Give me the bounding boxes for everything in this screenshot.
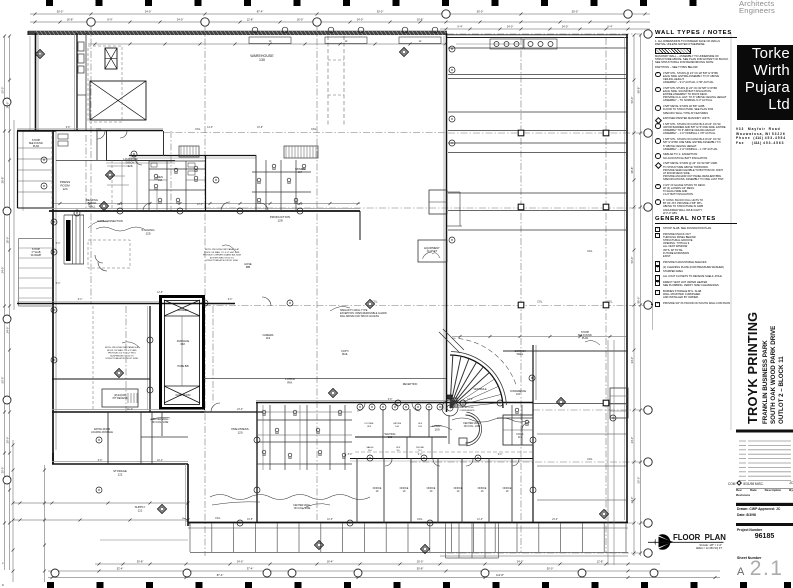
svg-text:PROVIDE CORNER GUARD EA. SIDE: PROVIDE CORNER GUARD EA. SIDE (203, 254, 242, 257)
svg-text:24'-0″: 24'-0″ (6, 327, 10, 334)
svg-text:COL.: COL. (372, 301, 378, 304)
svg-text:119: 119 (266, 336, 271, 340)
svg-text:118: 118 (158, 179, 163, 182)
svg-text:9'-8″: 9'-8″ (66, 127, 71, 129)
svg-text:16'-0″: 16'-0″ (6, 237, 10, 244)
svg-text:120: 120 (237, 431, 242, 435)
svg-text:50'-0″: 50'-0″ (547, 567, 554, 571)
svg-text:108: 108 (395, 426, 399, 428)
svg-text:50'-8″: 50'-8″ (417, 567, 424, 571)
svg-text:126: 126 (127, 164, 132, 168)
svg-text:24'-0″: 24'-0″ (1, 267, 5, 274)
svg-text:24'-0″: 24'-0″ (357, 18, 364, 22)
svg-text:16'-8″: 16'-8″ (247, 519, 253, 521)
svg-text:24'-0″: 24'-0″ (177, 18, 184, 22)
svg-text:24'-0″: 24'-0″ (507, 25, 514, 29)
svg-text:COL.: COL. (537, 301, 543, 304)
svg-text:102: 102 (518, 435, 523, 439)
svg-text:30'-8″: 30'-8″ (137, 560, 144, 564)
svg-text:130: 130 (259, 58, 265, 62)
svg-text:5'-4″: 5'-4″ (56, 243, 61, 245)
svg-text:AT EXPOSED STUD TO: AT EXPOSED STUD TO (210, 256, 234, 259)
svg-text:24'-0″: 24'-0″ (237, 409, 243, 411)
svg-text:16'-0″: 16'-0″ (297, 18, 304, 22)
svg-text:6'-8″: 6'-8″ (388, 399, 393, 401)
svg-text:RM.: RM. (287, 380, 292, 384)
svg-text:52'-4″: 52'-4″ (117, 567, 124, 571)
svg-text:101: 101 (388, 435, 393, 439)
svg-text:8'-0″: 8'-0″ (348, 454, 353, 456)
svg-text:PROVIDE 2x4 TO 8'-0″ HGT.: PROVIDE 2x4 TO 8'-0″ HGT. (108, 353, 136, 355)
svg-text:OFF: OFF (396, 447, 401, 449)
svg-text:125: 125 (145, 232, 150, 236)
svg-text:12'-8″: 12'-8″ (247, 18, 254, 22)
svg-text:DARK ROOM: DARK ROOM (176, 394, 191, 397)
svg-text:20'-0″: 20'-0″ (6, 437, 10, 444)
svg-text:c: c (2, 583, 4, 587)
svg-text:24'-0″: 24'-0″ (552, 519, 558, 521)
svg-text:COL.: COL. (96, 128, 102, 131)
svg-text:FUTURE: FUTURE (365, 423, 374, 425)
svg-text:117: 117 (298, 171, 303, 174)
svg-text:RAIL ABOVE FOR TRUCK ACCESS: RAIL ABOVE FOR TRUCK ACCESS (340, 315, 379, 318)
svg-text:PHONE: PHONE (416, 447, 424, 449)
svg-text:12: 12 (345, 40, 348, 43)
svg-text:RM.: RM. (181, 342, 186, 346)
svg-text:16'-4″: 16'-4″ (327, 560, 334, 564)
svg-text:112: 112 (418, 450, 422, 452)
svg-text:98'-8″: 98'-8″ (637, 87, 641, 94)
svg-text:MAIL: MAIL (342, 353, 348, 356)
svg-text:9'-0″: 9'-0″ (228, 299, 233, 301)
svg-text:10: 10 (376, 490, 379, 493)
svg-text:OFF: OFF (367, 426, 372, 428)
svg-text:12'-0″: 12'-0″ (477, 519, 483, 521)
svg-text:NOTE: PROVIDE FRP PANELS AT: NOTE: PROVIDE FRP PANELS AT (105, 346, 140, 349)
svg-text:ROOF OF WALL TO 4'-0″ HGT. AFF: ROOF OF WALL TO 4'-0″ HGT. AFF. (204, 251, 240, 254)
svg-text:24'-0″: 24'-0″ (630, 497, 634, 504)
svg-text:12: 12 (419, 40, 422, 43)
svg-text:50'-0″: 50'-0″ (1, 87, 5, 94)
svg-text:16'-8″: 16'-8″ (67, 18, 74, 22)
svg-text:LOADING PASSAGE: LOADING PASSAGE (91, 431, 113, 434)
svg-text:CONFERENCE: CONFERENCE (459, 410, 475, 412)
svg-text:50'-0″: 50'-0″ (477, 10, 484, 14)
svg-text:COL.: COL. (417, 518, 423, 521)
svg-text:50'-0″: 50'-0″ (630, 97, 634, 104)
svg-text:CAT RM: CAT RM (393, 422, 401, 425)
svg-text:128: 128 (277, 219, 282, 223)
svg-text:50'-0″: 50'-0″ (630, 257, 634, 264)
svg-text:HOPE BIB: HOPE BIB (177, 365, 189, 368)
svg-text:86'-0″: 86'-0″ (637, 297, 641, 304)
svg-text:87'-4″: 87'-4″ (217, 573, 224, 577)
svg-text:WALL: WALL (89, 204, 97, 208)
svg-text:30'-0″: 30'-0″ (377, 10, 384, 14)
svg-text:24'-0″: 24'-0″ (562, 25, 569, 29)
svg-text:12'-8″: 12'-8″ (597, 560, 604, 564)
svg-text:50'-0″: 50'-0″ (637, 477, 641, 484)
svg-text:103: 103 (516, 394, 521, 396)
svg-text:87'-4″: 87'-4″ (257, 10, 264, 14)
svg-text:10'-8″: 10'-8″ (417, 18, 424, 22)
svg-text:5'-4″: 5'-4″ (56, 283, 61, 285)
svg-text:COL.: COL. (587, 458, 593, 461)
svg-text:COL.: COL. (587, 250, 593, 253)
svg-text:12'-0″: 12'-0″ (467, 399, 473, 401)
svg-text:12'-4″: 12'-4″ (197, 204, 203, 206)
svg-text:36'-8″: 36'-8″ (630, 167, 634, 174)
svg-text:RECEPTION/: RECEPTION/ (460, 407, 474, 409)
svg-text:124: 124 (62, 187, 67, 191)
svg-text:50'-0″: 50'-0″ (1, 377, 5, 384)
svg-text:24'-0″: 24'-0″ (630, 437, 634, 444)
svg-text:10: 10 (457, 490, 460, 493)
svg-text:A: A (39, 53, 41, 57)
svg-text:9'-4″: 9'-4″ (607, 25, 612, 29)
svg-text:OFF: OFF (418, 423, 423, 425)
svg-text:10: 10 (481, 490, 484, 493)
svg-text:COL.: COL. (215, 517, 221, 520)
svg-text:COL.: COL. (311, 128, 317, 131)
svg-text:ON COL. LINE: ON COL. LINE (294, 507, 311, 510)
svg-text:c: c (2, 561, 4, 565)
svg-text:8'-0″: 8'-0″ (107, 18, 112, 22)
svg-text:109: 109 (418, 426, 422, 428)
svg-text:20'-0″: 20'-0″ (417, 560, 424, 564)
svg-text:122: 122 (118, 472, 123, 476)
svg-text:10: 10 (506, 490, 509, 493)
svg-text:10: 10 (430, 490, 433, 493)
svg-text:8'-8″: 8'-8″ (98, 460, 103, 462)
svg-text:ROOF OF WALL TO 4'-0″ AFF.: ROOF OF WALL TO 4'-0″ AFF. (107, 349, 137, 352)
svg-text:24'-0″: 24'-0″ (145, 10, 152, 14)
svg-text:ON COL. LINE: ON COL. LINE (152, 421, 169, 424)
svg-text:PLAN: PLAN (582, 337, 589, 340)
svg-text:10'-8″: 10'-8″ (257, 127, 263, 129)
svg-text:ON COL. LINE: ON COL. LINE (464, 425, 481, 428)
svg-text:COL.: COL. (607, 301, 613, 304)
svg-text:SCREEN: SCREEN (178, 308, 189, 312)
svg-text:50'-0″: 50'-0″ (572, 10, 579, 14)
svg-text:W/ RAMP: W/ RAMP (31, 254, 42, 257)
svg-text:STRUCTURE AT ROOF BT SIDE.: STRUCTURE AT ROOF BT SIDE. (205, 259, 239, 262)
svg-text:121: 121 (138, 508, 143, 512)
svg-text:8'-4″: 8'-4″ (78, 299, 83, 301)
svg-text:WALL: WALL (517, 353, 524, 356)
svg-text:110: 110 (368, 450, 372, 452)
svg-text:14'-0″: 14'-0″ (207, 127, 213, 129)
svg-text:16'-0″: 16'-0″ (297, 204, 303, 206)
svg-text:10'-0″: 10'-0″ (327, 519, 333, 521)
svg-text:STRUCTURE AT ROOF BT SIDE.: STRUCTURE AT ROOF BT SIDE. (105, 357, 139, 360)
svg-text:30'-0″: 30'-0″ (1, 467, 5, 474)
svg-text:37'-4″: 37'-4″ (247, 567, 254, 571)
svg-text:9'-4″: 9'-4″ (457, 25, 462, 29)
svg-text:50'-0″: 50'-0″ (57, 10, 64, 14)
svg-text:100: 100 (434, 428, 439, 432)
svg-text:VESTIBULE: VESTIBULE (473, 388, 487, 391)
svg-text:SUSPENDED STUD TO: SUSPENDED STUD TO (110, 355, 134, 357)
svg-text:PLAN: PLAN (33, 145, 40, 148)
svg-text:9'-4″: 9'-4″ (498, 454, 503, 456)
svg-text:112'-8″: 112'-8″ (496, 573, 504, 577)
svg-text:CLOSET: CLOSET (427, 249, 438, 253)
svg-text:24'-0″: 24'-0″ (6, 102, 10, 109)
svg-text:CONFERENCE: CONFERENCE (510, 391, 527, 393)
svg-text:RECEPTION: RECEPTION (403, 383, 418, 386)
svg-text:DATING ROOM: DATING ROOM (94, 428, 110, 431)
svg-text:111: 111 (396, 450, 400, 452)
svg-text:24'-0″: 24'-0″ (517, 560, 524, 564)
svg-text:NOTE: PROVIDE FRP PANELS AT: NOTE: PROVIDE FRP PANELS AT (205, 248, 240, 251)
svg-text:10: 10 (403, 490, 406, 493)
svg-text:9'-4″: 9'-4″ (418, 454, 423, 456)
svg-text:21'-8″: 21'-8″ (117, 204, 123, 206)
svg-text:BIB: BIB (246, 265, 250, 269)
svg-text:10'-4″: 10'-4″ (157, 460, 163, 462)
svg-text:PIT RECESS: PIT RECESS (113, 397, 128, 400)
svg-text:24'-0″: 24'-0″ (237, 560, 244, 564)
svg-text:COL.: COL. (195, 128, 201, 131)
svg-text:SALES: SALES (366, 446, 374, 449)
svg-text:11'-4″: 11'-4″ (127, 409, 133, 411)
svg-text:36'-8″: 36'-8″ (1, 177, 5, 184)
svg-text:34'-0″: 34'-0″ (630, 357, 634, 364)
svg-text:12'-8″: 12'-8″ (157, 292, 163, 294)
